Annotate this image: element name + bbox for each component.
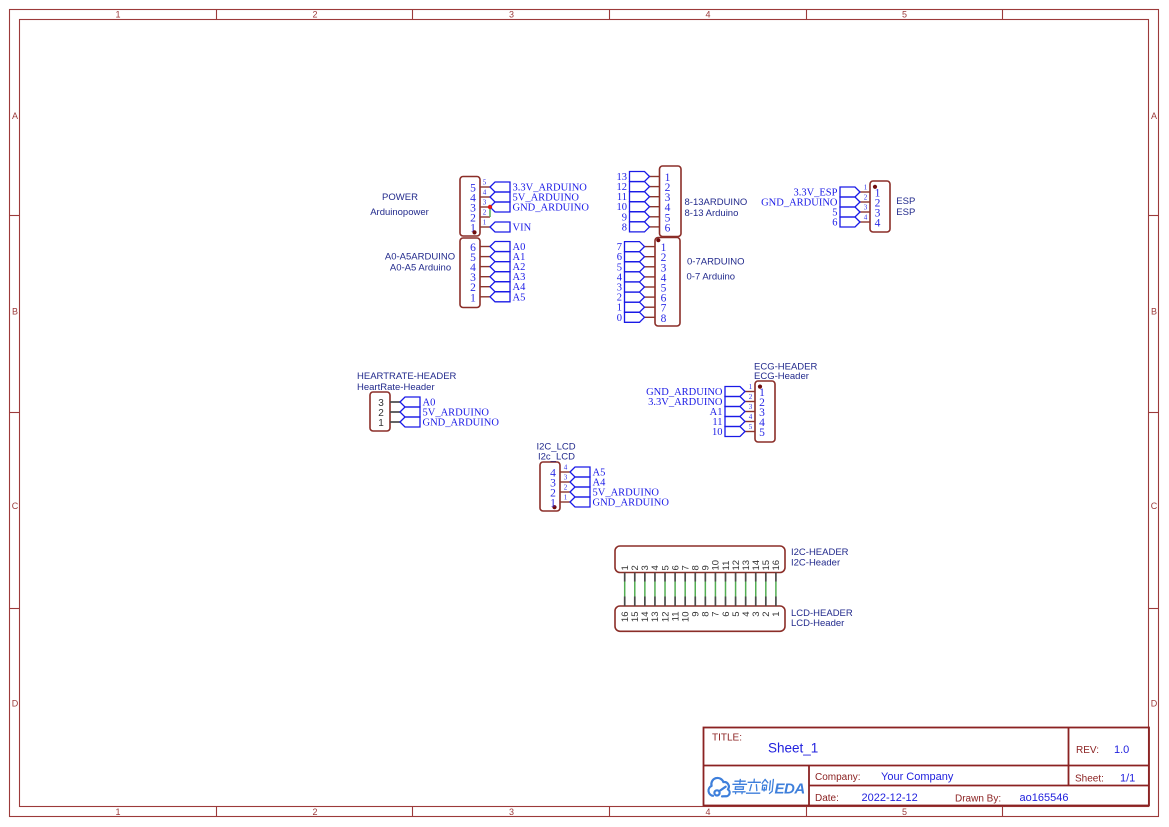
8-13 pin 2 [650,186,660,188]
wire net 6 [674,582,676,597]
net flag 3 [625,282,645,292]
connector ECG-HEADER [755,381,775,442]
net flag 6 [840,217,860,227]
wire net 13 [745,582,747,597]
I2C_LCD pin 3 [560,481,570,483]
net flag 9 [630,212,650,222]
svg-text:2022-12-12: 2022-12-12 [862,792,918,804]
net flag 1 [625,302,645,312]
net flag A1 [490,252,510,262]
svg-text:ao165546: ao165546 [1020,792,1069,804]
svg-text:ESP: ESP [896,207,915,218]
svg-text:ESP: ESP [896,196,915,207]
I2C-HEADER pin 7 [684,573,686,582]
wire net 11 [725,582,727,597]
net flag GND_ARDUINO [570,497,590,507]
svg-text:VIN: VIN [513,223,532,234]
I2C-HEADER pin 10 [714,573,716,582]
svg-text:2: 2 [312,807,317,817]
svg-text:GND_ARDUINO: GND_ARDUINO [423,418,500,429]
ECG pin 5 [745,431,755,433]
A0-A5 pin 1 [480,296,490,298]
net flag A5 [570,467,590,477]
svg-text:6: 6 [665,222,671,234]
LCD-HEADER pin 14 [644,597,646,607]
I2C-HEADER pin 14 [755,573,757,582]
HEARTRATE pin 3 [390,401,400,403]
wire net 7 [684,582,686,597]
svg-text:16: 16 [771,560,782,571]
wire net 4 [654,582,656,597]
I2C-HEADER pin 13 [745,573,747,582]
net flag A0 [400,397,420,407]
svg-text:4: 4 [564,464,568,472]
svg-text:D: D [1151,699,1158,709]
svg-text:3: 3 [509,807,514,817]
net flag GND_ARDUINO [490,202,510,212]
net flag 5V_ARDUINO [400,407,420,417]
svg-text:4: 4 [864,214,868,222]
net flag GND_ARDUINO [725,387,745,397]
svg-text:TITLE:: TITLE: [712,733,742,744]
svg-text:5: 5 [759,427,765,439]
8-13 pin 1 [650,176,660,178]
wire net 15 [765,582,767,597]
svg-text:8-13 Arduino: 8-13 Arduino [685,208,739,219]
svg-text:1: 1 [115,807,120,817]
I2C-HEADER pin 11 [725,573,727,582]
net flag 11 [725,417,745,427]
8-13 pin 6 [650,226,660,228]
svg-text:2: 2 [864,194,868,202]
net flag 13 [630,172,650,182]
LCD-HEADER pin 16 [624,597,626,607]
svg-text:A: A [12,111,18,121]
wire net 14 [755,582,757,597]
HEARTRATE pin 2 [390,411,400,413]
net flag 5 [625,262,645,272]
svg-text:3: 3 [749,403,753,411]
LCD-HEADER pin 11 [674,597,676,607]
LCD-HEADER pin 12 [664,597,666,607]
0-7 pin 3 [645,266,656,268]
LCD-HEADER pin 1 [775,597,777,607]
svg-text:10: 10 [712,427,723,438]
wire net 5 [664,582,666,597]
svg-text:1: 1 [550,498,556,510]
I2C-HEADER pin 6 [674,573,676,582]
svg-text:1: 1 [115,10,120,20]
svg-text:3: 3 [483,199,487,207]
svg-text:B: B [1151,307,1157,317]
svg-text:5: 5 [902,807,907,817]
I2C-HEADER pin 2 [634,573,636,582]
POWER pin 3 [480,206,490,208]
net flag GND_ARDUINO [840,197,860,207]
wire net 12 [735,582,737,597]
svg-text:I2c_LCD: I2c_LCD [538,452,575,463]
net flag A4 [570,477,590,487]
net flag VIN [490,222,510,232]
svg-text:GND_ARDUINO: GND_ARDUINO [593,498,670,509]
net flag A3 [490,272,510,282]
svg-text:3: 3 [864,204,868,212]
svg-text:2: 2 [564,484,568,492]
svg-text:6: 6 [832,218,837,229]
LCD-HEADER pin 8 [704,597,706,607]
svg-text:5: 5 [749,423,753,431]
svg-text:EDA: EDA [775,780,805,797]
connector HEARTRATE-HEADER [370,392,390,431]
wire net 2 [634,582,636,597]
POWER pin 2 [480,216,490,218]
svg-text:2: 2 [312,10,317,20]
net flag 7 [625,242,645,252]
LCD-HEADER pin 2 [765,597,767,607]
svg-text:Company:: Company: [815,772,861,783]
I2C_LCD pin 2 [560,491,570,493]
connector 8-13ARDUINO [660,166,682,237]
svg-text:B: B [12,307,18,317]
A0-A5 pin 5 [480,256,490,258]
LCD-HEADER pin 15 [634,597,636,607]
svg-text:Date:: Date: [815,793,839,804]
svg-text:Your Company: Your Company [881,771,954,783]
0-7 pin 6 [645,296,656,298]
svg-text:D: D [12,699,19,709]
0-7 pin 8 [645,316,656,318]
0-7 pin 5 [645,286,656,288]
svg-text:1: 1 [749,383,753,391]
I2C-HEADER pin 5 [664,573,666,582]
connector LCD-HEADER [615,606,785,631]
svg-text:A0-A5ARDUINO: A0-A5ARDUINO [385,252,455,263]
svg-text:8: 8 [622,222,627,233]
8-13 pin 4 [650,206,660,208]
connector ESP [870,181,890,232]
svg-text:A5: A5 [513,292,526,303]
svg-text:A: A [1151,111,1157,121]
A0-A5 pin 4 [480,266,490,268]
svg-text:POWER: POWER [382,192,418,203]
svg-text:3: 3 [564,474,568,482]
svg-text:1: 1 [470,292,476,304]
svg-text:2: 2 [483,209,487,217]
A0-A5 pin 6 [480,246,490,248]
0-7 pin 4 [645,276,656,278]
I2C_LCD pin 1 marker [552,505,556,509]
svg-text:8: 8 [661,313,667,325]
logo text 嘉立创EDA (drawn strokes, italic slant) [732,779,773,793]
I2C_LCD pin 4 [560,471,570,473]
0-7 pin 2 [645,256,656,258]
I2C-HEADER pin 15 [765,573,767,582]
POWER pin 1 marker [472,230,476,234]
net flag 11 [630,192,650,202]
I2C-HEADER pin 9 [704,573,706,582]
LCD-HEADER pin 10 [684,597,686,607]
connector I2C-HEADER [615,546,785,573]
0-7 pin 1 marker [656,238,660,242]
POWER pin 5 [480,186,490,188]
logo EasyEDA cloud [709,778,730,796]
svg-text:I2C-Header: I2C-Header [791,557,840,568]
net flag 5 [840,207,860,217]
LCD-HEADER pin 9 [694,597,696,607]
svg-text:1.0: 1.0 [1114,744,1129,756]
svg-text:8-13ARDUINO: 8-13ARDUINO [685,197,748,208]
I2C-HEADER pin 4 [654,573,656,582]
svg-text:Sheet:: Sheet: [1075,774,1104,785]
net flag 3.3V_ESP [840,187,860,197]
LCD-HEADER pin 7 [714,597,716,607]
A0-A5 pin 3 [480,276,490,278]
net flag A0 [490,242,510,252]
svg-text:4: 4 [483,189,487,197]
svg-text:5: 5 [483,179,487,187]
ECG pin 2 [745,401,755,403]
svg-text:1: 1 [378,418,384,429]
svg-text:ECG-Header: ECG-Header [754,371,809,382]
connector POWER Arduinopower [460,177,480,237]
ESP pin 3 [860,211,870,213]
svg-text:4: 4 [705,807,710,817]
wire net 10 [714,582,716,597]
svg-text:3: 3 [509,10,514,20]
8-13 pin 5 [650,216,660,218]
ECG pin 4 [745,421,755,423]
svg-text:4: 4 [875,218,881,230]
I2C-HEADER pin 3 [644,573,646,582]
junction on pin 3 [488,205,492,209]
0-7 pin 1 [645,246,656,248]
svg-text:1/1: 1/1 [1120,773,1135,785]
svg-text:A0-A5 Arduino: A0-A5 Arduino [390,262,451,273]
I2C-HEADER pin 12 [735,573,737,582]
svg-text:C: C [1151,501,1158,511]
net flag A4 [490,282,510,292]
svg-text:Arduinopower: Arduinopower [370,207,429,218]
svg-text:4: 4 [705,10,710,20]
net flag A1 [725,407,745,417]
svg-text:2: 2 [749,393,753,401]
I2C-HEADER pin 16 [775,573,777,582]
0-7 pin 7 [645,306,656,308]
net flag 8 [630,222,650,232]
HEARTRATE pin 1 [390,421,400,423]
ECG pin 1 [745,391,755,393]
net flag 5V_ARDUINO [570,487,590,497]
connector 0-7ARDUINO [655,238,680,327]
LCD-HEADER pin 5 [735,597,737,607]
I2C-HEADER pin 8 [694,573,696,582]
ESP pin 2 [860,201,870,203]
ECG pin 3 [745,411,755,413]
net flag 12 [630,182,650,192]
title block [704,728,1150,806]
svg-text:0-7ARDUINO: 0-7ARDUINO [687,257,745,268]
svg-text:5: 5 [902,10,907,20]
ESP pin 4 [860,221,870,223]
POWER pin 4 [480,196,490,198]
ECG pin 1 marker [758,385,762,389]
svg-text:Sheet_1: Sheet_1 [768,741,818,756]
net flag 3.3V_ARDUINO [490,182,510,192]
net flag 2 [625,292,645,302]
svg-text:GND_ARDUINO: GND_ARDUINO [761,198,838,209]
net flag 10 [725,427,745,437]
svg-text:0-7 Arduino: 0-7 Arduino [687,271,736,282]
I2C-HEADER pin 1 [624,573,626,582]
LCD-HEADER pin 3 [755,597,757,607]
svg-text:HeartRate-Header: HeartRate-Header [357,382,435,393]
net flag 3.3V_ARDUINO [725,397,745,407]
net flag 5V_ARDUINO [490,192,510,202]
A0-A5 pin 2 [480,286,490,288]
wire net 9 [704,582,706,597]
svg-text:C: C [12,501,19,511]
svg-text:4: 4 [749,413,753,421]
ESP pin 1 [860,191,870,193]
svg-text:0: 0 [617,313,622,324]
wire net 1 [624,582,626,597]
svg-text:GND_ARDUINO: GND_ARDUINO [513,203,590,214]
svg-text:Drawn By:: Drawn By: [955,794,1001,805]
wire net 3 [644,582,646,597]
net flag 6 [625,252,645,262]
svg-text:1: 1 [864,184,868,192]
svg-text:REV:: REV: [1076,745,1099,756]
connector I2C_LCD [540,462,560,511]
wire net 8 [694,582,696,597]
net flag A5 [490,292,510,302]
connector A0-A5ARDUINO [460,238,480,308]
net flag GND_ARDUINO [400,417,420,427]
I2C_LCD pin 1 [560,501,570,503]
svg-text:1: 1 [483,219,487,227]
LCD-HEADER pin 4 [745,597,747,607]
svg-text:LCD-Header: LCD-Header [791,618,844,629]
POWER pin 1 [480,226,490,228]
net flag 4 [625,272,645,282]
LCD-HEADER pin 13 [654,597,656,607]
net flag 10 [630,202,650,212]
LCD-HEADER pin 6 [725,597,727,607]
wire net 16 [775,582,777,597]
net flag A2 [490,262,510,272]
net flag 0 [625,312,645,322]
wire GND pin3 to pin2 [489,207,491,217]
8-13 pin 3 [650,196,660,198]
svg-text:HEARTRATE-HEADER: HEARTRATE-HEADER [357,371,457,382]
ESP pin 1 marker [873,185,877,189]
svg-text:1: 1 [564,494,568,502]
svg-text:1: 1 [771,612,782,617]
